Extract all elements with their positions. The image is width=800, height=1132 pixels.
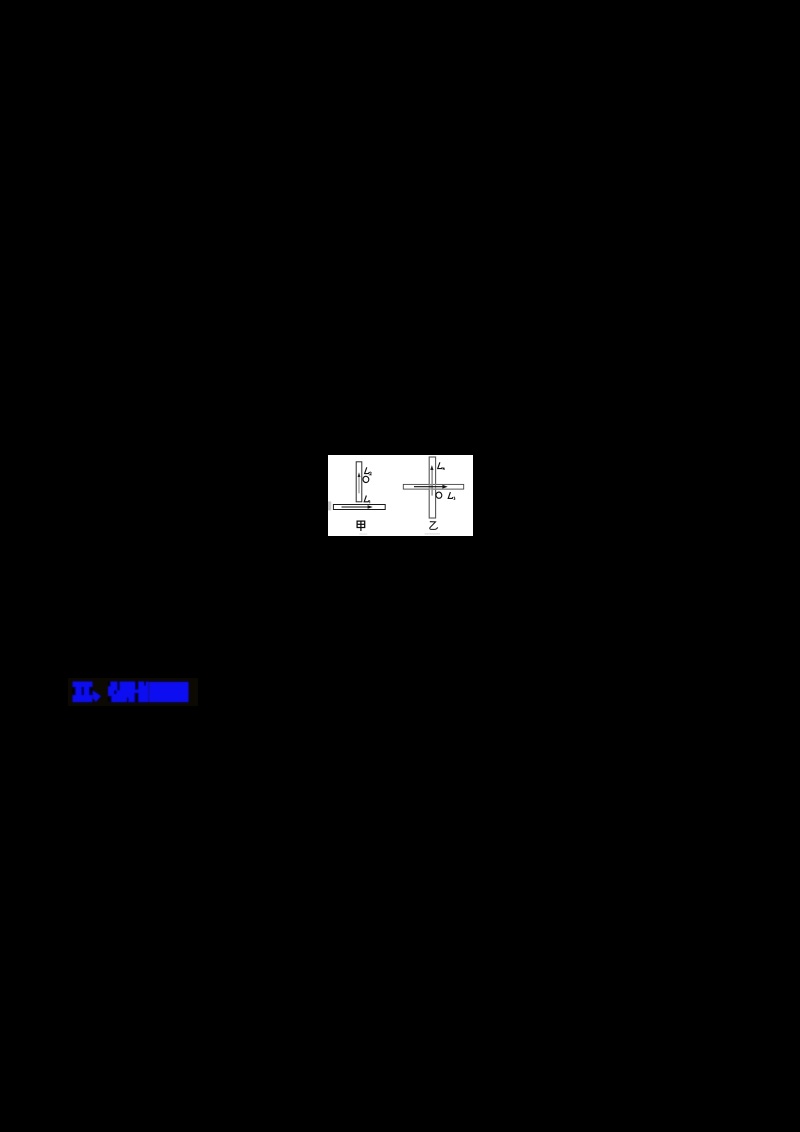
current arrow in L4 (up)	[431, 469, 433, 496]
current arrow in L2 (up)	[358, 476, 360, 494]
faint underline under 乙	[425, 533, 441, 534]
wire bar L1 (horizontal bar, figure 甲)	[333, 505, 385, 510]
wire bar L3 (horizontal bar, figure 乙)	[403, 484, 463, 489]
node O (figure 甲)	[362, 476, 369, 483]
caption 乙	[430, 522, 438, 530]
label L2	[365, 467, 372, 475]
node O (figure 乙)	[435, 492, 442, 499]
figure panel (white box with two wire diagrams 甲 and 乙)	[328, 455, 473, 536]
character 对	[108, 682, 129, 703]
caption 甲	[357, 521, 365, 531]
gray tick at panel left edge	[328, 501, 331, 510]
character 五	[73, 682, 102, 703]
label L3	[448, 492, 455, 500]
current arrow in L1 (right)	[342, 506, 370, 508]
dark halo behind heading	[68, 678, 198, 706]
label L1	[364, 496, 370, 504]
blue heading 五、对比问题 (drawn, blurred)	[68, 676, 198, 706]
label L4	[438, 462, 445, 470]
characters 问题 (merged bold blob)	[149, 682, 189, 702]
faint underline under 甲	[359, 534, 367, 535]
wire bar L4 (vertical bar, figure 乙)	[429, 457, 435, 518]
current arrow in L3 (right)	[414, 486, 444, 488]
wire bar L2 (vertical bar, figure 甲)	[356, 462, 362, 502]
crossing shading of L4 over L3	[430, 484, 433, 489]
character 比	[129, 682, 149, 703]
